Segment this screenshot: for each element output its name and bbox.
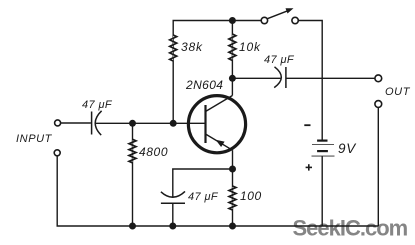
resistor 100 bbox=[229, 169, 236, 226]
svg-text:SeekIC.com: SeekIC.com bbox=[293, 216, 408, 241]
node 38k-base junction bbox=[170, 120, 177, 127]
capacitor C3 47uF bypass bbox=[161, 191, 185, 203]
svg-text:9V: 9V bbox=[338, 141, 357, 156]
wire collector junction to output cap bbox=[232, 77, 280, 79]
resistor 4800 bbox=[129, 139, 136, 163]
resistor 38k bbox=[170, 35, 177, 61]
label plus bbox=[306, 164, 312, 170]
capacitor C2 47uF output bbox=[274, 67, 286, 88]
wire OUT lower terminal to bottom rail bbox=[377, 107, 379, 226]
svg-text:4800: 4800 bbox=[139, 145, 168, 159]
terminal INPUT lower bbox=[54, 150, 60, 156]
wire input lower terminal to bottom rail bbox=[57, 156, 378, 226]
node collector junction bbox=[229, 75, 236, 82]
wire battery to bottom rail bbox=[321, 156, 323, 226]
node top junction bbox=[229, 17, 236, 24]
wire 4800 branch bbox=[132, 123, 134, 226]
svg-text:47 μF: 47 μF bbox=[188, 191, 219, 203]
wire collector to junction bbox=[231, 78, 233, 95]
svg-text:10k: 10k bbox=[239, 40, 261, 54]
wire capacitor to base bbox=[96, 122, 206, 124]
wire top rail left (38k top to switch) bbox=[173, 21, 261, 124]
wire emitter junction to bypass cap bbox=[173, 169, 233, 197]
capacitor C1 47uF input bbox=[92, 111, 102, 135]
terminal OUT lower bbox=[375, 101, 382, 108]
svg-text:OUT: OUT bbox=[385, 86, 411, 98]
node emitter junction bbox=[229, 166, 236, 173]
svg-text:INPUT: INPUT bbox=[16, 133, 53, 145]
wire switch to battery rail bbox=[298, 21, 322, 141]
wire input terminal to capacitor bbox=[61, 122, 91, 124]
battery B1 9V bbox=[312, 141, 335, 157]
svg-text:100: 100 bbox=[240, 189, 262, 203]
node 100 bottom junction bbox=[229, 223, 236, 230]
switch S1 bbox=[261, 8, 298, 23]
svg-text:38k: 38k bbox=[181, 40, 203, 54]
transistor Q1 2N604 bbox=[188, 96, 245, 153]
node base-bias junction bbox=[129, 120, 136, 127]
terminal OUT upper bbox=[375, 75, 382, 82]
wire output cap to OUT terminal bbox=[286, 77, 375, 79]
resistor 10k bbox=[229, 34, 236, 61]
terminal INPUT upper bbox=[55, 120, 61, 126]
svg-text:2N604: 2N604 bbox=[185, 78, 223, 92]
label minus bbox=[304, 124, 310, 126]
wire 10k branch bbox=[231, 21, 233, 79]
node bypass bottom junction bbox=[169, 223, 176, 230]
svg-text:47 μF: 47 μF bbox=[82, 99, 113, 111]
node 4800 bottom junction bbox=[129, 223, 136, 230]
svg-text:47 μF: 47 μF bbox=[264, 54, 295, 66]
wire bypass cap to bottom rail bbox=[172, 203, 174, 226]
wire emitter down bbox=[232, 150, 234, 169]
